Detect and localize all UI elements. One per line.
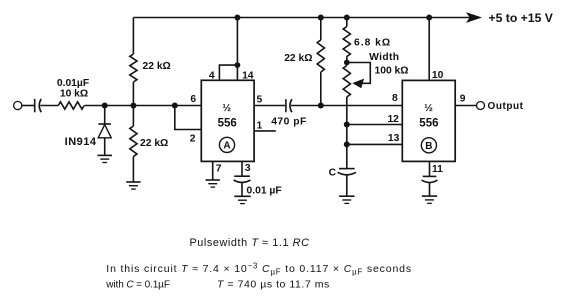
capacitor C4 control bypass curved plate bbox=[422, 180, 438, 182]
svg-text:A: A bbox=[223, 141, 230, 152]
wire left rail drop to R1 bbox=[132, 18, 134, 55]
resistor R4 22 kOhm pullup bbox=[317, 40, 324, 72]
wire C4 to ground bbox=[429, 183, 431, 197]
node junction pin2 branch bbox=[172, 103, 178, 109]
svg-text:T = 740 µs to 11.7 ms: T = 740 µs to 11.7 ms bbox=[217, 278, 330, 290]
wire pin 11 stub bbox=[429, 161, 431, 176]
wire pin 2 branch bbox=[175, 106, 202, 130]
wire diode D1 bottom lead bbox=[104, 138, 106, 156]
node junction diode bbox=[102, 103, 108, 109]
wire R4 bottom lead bbox=[320, 72, 322, 106]
wire pin 4 stub bbox=[219, 65, 237, 80]
wire pin 7 stub bbox=[212, 161, 214, 180]
svg-text:556: 556 bbox=[218, 117, 237, 129]
node junction rail/R4 bbox=[318, 15, 324, 21]
node junction rail/pin14 bbox=[234, 15, 240, 21]
op-amp U1B 556 body bbox=[402, 80, 455, 161]
wire pin 12 bbox=[347, 124, 403, 126]
svg-text:22 kΩ: 22 kΩ bbox=[140, 138, 168, 149]
svg-text:In this circuit T ≈ 7.4 × 10−3: In this circuit T ≈ 7.4 × 10−3 CµF to 0.… bbox=[106, 261, 412, 276]
ground below pin 7 bbox=[206, 180, 220, 187]
node junction pin 12 bbox=[344, 122, 350, 128]
node junction wiper bbox=[344, 60, 350, 66]
resistor R3 10 kOhm bbox=[58, 102, 84, 109]
svg-text:7: 7 bbox=[216, 164, 222, 175]
wire pot wiper loop bbox=[347, 63, 371, 84]
potentiometer wiper arrowhead bbox=[352, 79, 364, 89]
svg-text:12: 12 bbox=[387, 114, 399, 125]
svg-text:9: 9 bbox=[460, 94, 466, 105]
svg-text:½: ½ bbox=[222, 102, 231, 114]
resistor R1 22 kOhm upper-left bbox=[130, 54, 137, 82]
wire diode D1 top lead bbox=[104, 106, 106, 125]
svg-text:22 kΩ: 22 kΩ bbox=[284, 53, 312, 64]
svg-text:10 kΩ: 10 kΩ bbox=[60, 89, 88, 100]
wire main input line to pin 6 bbox=[84, 105, 201, 107]
diode D1 IN914 cathode bar bbox=[98, 123, 111, 125]
svg-text:556: 556 bbox=[419, 117, 438, 129]
op-amp U1A 556 body bbox=[201, 80, 254, 161]
wire R1 bottom lead bbox=[132, 82, 134, 106]
svg-text:4: 4 bbox=[209, 71, 215, 82]
wire pin 10 vertical from rail bbox=[428, 18, 430, 81]
capacitor C3 0.01uF top plate bbox=[234, 175, 250, 177]
svg-text:13: 13 bbox=[388, 133, 400, 144]
capacitor C4 control bypass top plate bbox=[423, 175, 437, 177]
svg-text:470 pF: 470 pF bbox=[271, 116, 307, 127]
input terminal circle bbox=[14, 101, 22, 109]
node junction rail/R5 bbox=[344, 15, 350, 21]
wire supply arrowhead bbox=[466, 12, 482, 23]
svg-text:C: C bbox=[329, 168, 337, 179]
wire C1 to R3 bbox=[40, 105, 58, 107]
capacitor C1 0.01uF input left plate bbox=[34, 99, 36, 112]
svg-text:0.01µF: 0.01µF bbox=[57, 78, 89, 89]
ground below C bbox=[339, 196, 354, 203]
svg-text:+5 to +15 V: +5 to +15 V bbox=[489, 11, 554, 25]
wire pin 5 to C2 bbox=[254, 105, 285, 107]
wire trigger line C2 to pin 8 bbox=[291, 105, 402, 107]
svg-text:10: 10 bbox=[432, 70, 444, 81]
wire pin 9 output bbox=[455, 105, 476, 107]
wire top supply rail bbox=[133, 17, 470, 19]
ground below C3 bbox=[234, 196, 250, 203]
svg-text:Output: Output bbox=[488, 101, 524, 112]
wire C to ground bbox=[346, 175, 348, 196]
wire R5 top lead bbox=[346, 18, 348, 27]
node junction R1/R2 bbox=[130, 103, 136, 109]
node junction bracket pins 4-14 bbox=[235, 62, 241, 68]
svg-text:½: ½ bbox=[424, 102, 433, 114]
svg-text:5: 5 bbox=[257, 94, 263, 105]
svg-text:2: 2 bbox=[190, 133, 196, 144]
ground below diode D1 bbox=[98, 155, 113, 162]
svg-text:8: 8 bbox=[392, 93, 398, 104]
svg-text:11: 11 bbox=[432, 164, 443, 175]
output terminal circle bbox=[477, 102, 485, 110]
resistor R5 6.8 kOhm bbox=[343, 27, 350, 57]
wire R2 bottom lead bbox=[132, 157, 134, 183]
capacitor C3 0.01uF curved plate bbox=[234, 180, 251, 182]
svg-text:6.8 kΩ: 6.8 kΩ bbox=[354, 37, 391, 48]
svg-text:1: 1 bbox=[257, 121, 263, 132]
svg-text:14: 14 bbox=[242, 70, 254, 81]
svg-text:Width: Width bbox=[369, 52, 399, 63]
node junction R4 pullup / trigger bbox=[318, 103, 324, 109]
wire R4 top lead bbox=[320, 18, 322, 41]
svg-text:0.01 µF: 0.01 µF bbox=[247, 185, 282, 196]
wire pin 1 stub bbox=[254, 130, 276, 132]
svg-text:B: B bbox=[425, 141, 432, 152]
wire pin 14 vertical to rail bbox=[236, 18, 238, 81]
svg-text:6: 6 bbox=[190, 94, 196, 105]
svg-text:IN914: IN914 bbox=[65, 136, 97, 148]
wire R5 to pot junction bbox=[346, 57, 348, 66]
wire pot bottom lead down to cap C bbox=[346, 97, 348, 169]
capacitor C timing curved plate bbox=[338, 172, 356, 175]
node junction rail/pin10 bbox=[426, 15, 432, 21]
wire pin 3 stub bbox=[241, 161, 243, 176]
ground below C4 bbox=[422, 196, 437, 203]
capacitor C2 470 pF curved plate bbox=[290, 99, 292, 112]
diode D1 IN914 triangle bbox=[98, 125, 111, 138]
ground below R2 bbox=[126, 182, 140, 189]
svg-text:100 kΩ: 100 kΩ bbox=[374, 65, 408, 76]
capacitor C2 470 pF left plate bbox=[285, 99, 287, 112]
node junction pin 13 bbox=[344, 141, 350, 147]
wire input to C1 bbox=[22, 105, 35, 107]
wire pin 13 bbox=[347, 143, 403, 145]
svg-text:3: 3 bbox=[245, 163, 251, 174]
wire R2 top lead bbox=[132, 106, 134, 127]
svg-text:22 kΩ: 22 kΩ bbox=[143, 61, 171, 72]
resistor R2 22 kOhm lower-left bbox=[130, 126, 137, 156]
svg-text:Pulsewidth T ≈ 1.1 RC: Pulsewidth T ≈ 1.1 RC bbox=[190, 237, 310, 249]
capacitor C timing top plate bbox=[339, 168, 355, 170]
potentiometer R6 100 kOhm body bbox=[343, 66, 350, 98]
wire C3 to ground bbox=[241, 183, 243, 197]
capacitor C1 0.01uF input curved plate bbox=[39, 99, 41, 112]
node circled A designator bbox=[219, 137, 234, 152]
node circled B designator bbox=[421, 138, 436, 153]
svg-text:with C = 0.1µF: with C = 0.1µF bbox=[105, 279, 170, 290]
